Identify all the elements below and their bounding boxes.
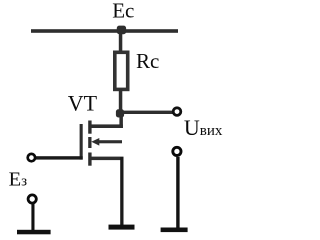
svg-text:Eз: Eз — [9, 169, 28, 191]
svg-text:Uвих: Uвих — [184, 115, 223, 140]
svg-text:Ec: Ec — [112, 0, 134, 23]
svg-text:VT: VT — [68, 90, 98, 115]
svg-text:Rc: Rc — [136, 49, 159, 73]
